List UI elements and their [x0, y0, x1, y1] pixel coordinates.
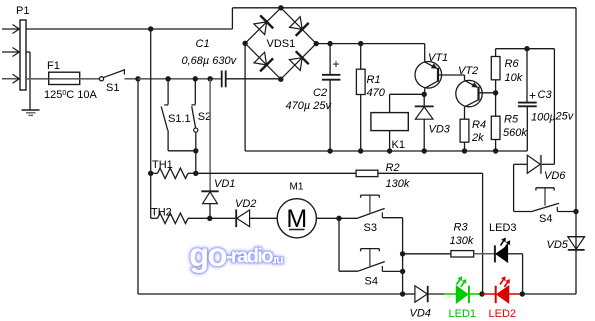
connector P1 pin 3 arrow [2, 78, 19, 80]
svg-text:100µ: 100µ [531, 112, 556, 124]
LED LED1 arrows [457, 280, 460, 285]
node VT1 collector [422, 92, 427, 97]
node S4 right rail [573, 209, 578, 214]
switch S4 actuator [361, 248, 380, 250]
svg-text:M1: M1 [290, 182, 304, 193]
wire LED2 node to right rail [522, 293, 576, 295]
wire DC minus rail [245, 150, 527, 152]
svg-text:C3: C3 [538, 89, 553, 101]
node TH1 left [148, 171, 153, 176]
wire live row [138, 78, 222, 80]
connector P1 pin 1 arrow [2, 28, 19, 30]
wire relay to minus rail [389, 131, 391, 151]
resistor R3 [451, 251, 474, 257]
svg-text:R2: R2 [386, 162, 400, 174]
capacitor C3 [526, 49, 528, 103]
ground [22, 109, 40, 111]
wire VD4 to LED1 [428, 293, 444, 295]
wire VT1 base to VT2 emitter [438, 74, 465, 76]
svg-text:VD5: VD5 [547, 239, 569, 251]
switch S3 actuator [361, 194, 380, 196]
svg-text:+: + [529, 89, 536, 103]
bridge diode bottom-right [289, 58, 302, 71]
svg-text:0,68µ 630v: 0,68µ 630v [182, 55, 238, 67]
svg-text:470: 470 [367, 87, 386, 99]
wire TH1 row to R2 [196, 172, 356, 174]
node R3 branch [400, 251, 405, 256]
wire motor to S3 [316, 217, 358, 219]
node neutral branch to TH1 [148, 26, 153, 31]
wire right side rail [575, 8, 577, 294]
svg-text:VD1: VD1 [214, 178, 235, 190]
bridge diode top-left [254, 22, 267, 35]
svg-text:S4: S4 [539, 213, 552, 225]
svg-text:VD3: VD3 [429, 124, 451, 136]
wire VT2 base to divider [479, 92, 496, 94]
svg-text:K1: K1 [392, 139, 405, 151]
wire neutral branch down to TH1 [150, 29, 152, 173]
wire R2 to LED column [378, 172, 483, 174]
LED LED2 arrows [500, 280, 503, 285]
svg-text:VD4: VD4 [410, 308, 431, 320]
wire bridge left vertex to minus rail [244, 43, 246, 151]
switch S4 (right) actuator [536, 187, 554, 189]
svg-text:P1: P1 [16, 5, 29, 17]
wire VD2 to motor [250, 217, 278, 219]
diode VD3 [423, 94, 425, 106]
wire S3 right down [402, 218, 404, 294]
node R6/R5 junction [493, 90, 498, 95]
resistor R5 [495, 93, 497, 116]
relay K1 coil [371, 113, 408, 131]
svg-text:VD6: VD6 [544, 170, 566, 182]
node C3 branch [524, 46, 529, 51]
svg-text:LED2: LED2 [489, 308, 517, 320]
node VD1 branch [207, 76, 212, 81]
svg-text:2k: 2k [471, 132, 484, 144]
svg-text:TH1: TH1 [152, 159, 173, 171]
wire neutral riser to top rail [231, 8, 233, 29]
node LED2/LED3 junction [520, 291, 525, 296]
switch S4 contact [358, 262, 385, 272]
wire R6 top row [496, 48, 555, 50]
wire bottom rail left [138, 293, 403, 295]
wire to VD4 [403, 293, 415, 295]
capacitor C2 [329, 44, 331, 75]
LED LED1 [456, 286, 468, 303]
svg-text:130k: 130k [450, 235, 474, 247]
bridge diode bottom-left [254, 52, 267, 65]
wire R3 to LED3 (gray) [474, 253, 494, 255]
svg-text:25v: 25v [555, 111, 575, 123]
transistor VT1 [415, 62, 442, 89]
node bottom rail / S-switch column [400, 291, 405, 296]
svg-text:S4: S4 [365, 276, 378, 288]
wire neutral from P1 top pin [26, 28, 232, 30]
node C2 branch [327, 41, 332, 46]
svg-text:C2: C2 [313, 87, 327, 99]
LED LED3 arrows [501, 241, 504, 246]
svg-text:R6: R6 [505, 58, 520, 70]
wire LED3 down to LED2 node [522, 254, 524, 294]
wire left side down to bottom rail [137, 79, 139, 294]
svg-text:VT2: VT2 [458, 65, 478, 77]
wire top rail [232, 7, 576, 9]
node S4 right [400, 269, 405, 274]
node bridge left vertex [242, 41, 247, 46]
wire TH2 row to VD2 [210, 217, 236, 219]
connector P1 pin 2 arrow [2, 51, 19, 53]
node VD1 anode / TH2 row [207, 216, 212, 221]
wire F1 to S1 [80, 78, 100, 80]
wire S3/S4 branch down [338, 218, 340, 271]
node bridge right vertex [314, 41, 319, 46]
svg-text:VDS1: VDS1 [267, 38, 296, 50]
svg-text:VT1: VT1 [428, 52, 448, 64]
wire collector to relay [390, 93, 425, 95]
wire DC plus row [316, 43, 425, 45]
bridge diode top-right [290, 17, 303, 30]
node R5 bottom [493, 148, 498, 153]
LED LED2 [495, 286, 497, 304]
node live to left bottom rail [135, 76, 140, 81]
svg-text:470µ 25v: 470µ 25v [286, 100, 333, 112]
bridge rectifier VDS1 frame [245, 8, 316, 79]
svg-text:S1: S1 [106, 82, 119, 94]
svg-text:S1.1: S1.1 [168, 113, 191, 125]
connector P1 body [20, 20, 26, 90]
wire VT1 emitter riser [424, 44, 426, 62]
motor M1 [277, 199, 316, 238]
diode VD2 [235, 209, 237, 227]
capacitor C1 [221, 71, 223, 88]
svg-text:VD2: VD2 [235, 198, 256, 210]
fuse F1 [49, 72, 80, 84]
wire standby riser [553, 49, 555, 165]
resistor R2 [356, 170, 378, 176]
svg-text:LED1: LED1 [449, 308, 477, 320]
resistor R1 [360, 44, 362, 70]
node C2 minus [327, 148, 332, 153]
node LED1/LED2 junction [479, 291, 484, 296]
svg-text:F1: F1 [47, 60, 60, 72]
node S1.1 branch [165, 76, 170, 81]
node TH1 right / S2 junction [193, 171, 198, 176]
svg-text:S2: S2 [198, 111, 211, 123]
thermal switch TH1 [158, 168, 189, 178]
svg-text:130k: 130k [386, 178, 410, 190]
switch S4 (right) contact [514, 211, 533, 213]
svg-text:560k: 560k [503, 127, 527, 139]
resistor R4 [460, 119, 469, 142]
switch S2 [194, 79, 196, 105]
transistor VT2 [456, 80, 482, 106]
wire LED1 node to LED2 [482, 293, 495, 295]
node VD3 anode [422, 148, 427, 153]
node relay bottom [387, 148, 392, 153]
watermark go-radio.ru [189, 236, 283, 273]
node S1.1/S2 junction [193, 148, 198, 153]
diode VD1 [201, 190, 218, 192]
node bridge bottom vertex [278, 77, 283, 82]
svg-text:R5: R5 [504, 114, 519, 126]
node S2 branch [193, 76, 198, 81]
svg-text:R1: R1 [367, 74, 381, 86]
wire live P1 to F1 [26, 78, 49, 80]
svg-text:LED3: LED3 [489, 222, 517, 234]
wire VD1 cathode riser (gray) [209, 79, 211, 192]
svg-text:TH2: TH2 [151, 207, 172, 219]
wire TH1 left down to TH2 [150, 173, 152, 218]
switch S1 [99, 77, 103, 81]
svg-text:S3: S3 [364, 222, 377, 234]
node S3/S4 branch [336, 216, 341, 221]
svg-text:+: + [333, 57, 340, 71]
node bridge top vertex [278, 5, 283, 10]
LED LED3 [494, 245, 496, 262]
diode VD5 [568, 236, 585, 238]
diode VD6 [541, 163, 554, 165]
diode VD4 [415, 286, 427, 303]
switch S1.1 [167, 79, 169, 105]
node R1 branch [358, 41, 363, 46]
wire S1.1 bottom to S2 bottom [168, 150, 196, 152]
switch S3 contact [358, 208, 385, 218]
wire C1 to bridge AC2 [226, 78, 281, 80]
svg-text:R4: R4 [472, 119, 486, 131]
svg-text:10k: 10k [505, 72, 523, 84]
node R4 bottom [462, 148, 467, 153]
node R1 bottom [358, 148, 363, 153]
wire VD6 to S4 [513, 164, 515, 211]
svg-text:C1: C1 [196, 38, 210, 50]
svg-text:1250C 10A: 1250C 10A [44, 89, 98, 101]
thermal switch TH2 [151, 217, 158, 219]
wire earth from P1 pin 2 [26, 51, 30, 53]
wire R3 left [403, 253, 451, 255]
svg-text:R3: R3 [454, 222, 469, 234]
resistor R6 [495, 49, 497, 57]
wire S2 junction down to TH1 row [195, 151, 197, 174]
